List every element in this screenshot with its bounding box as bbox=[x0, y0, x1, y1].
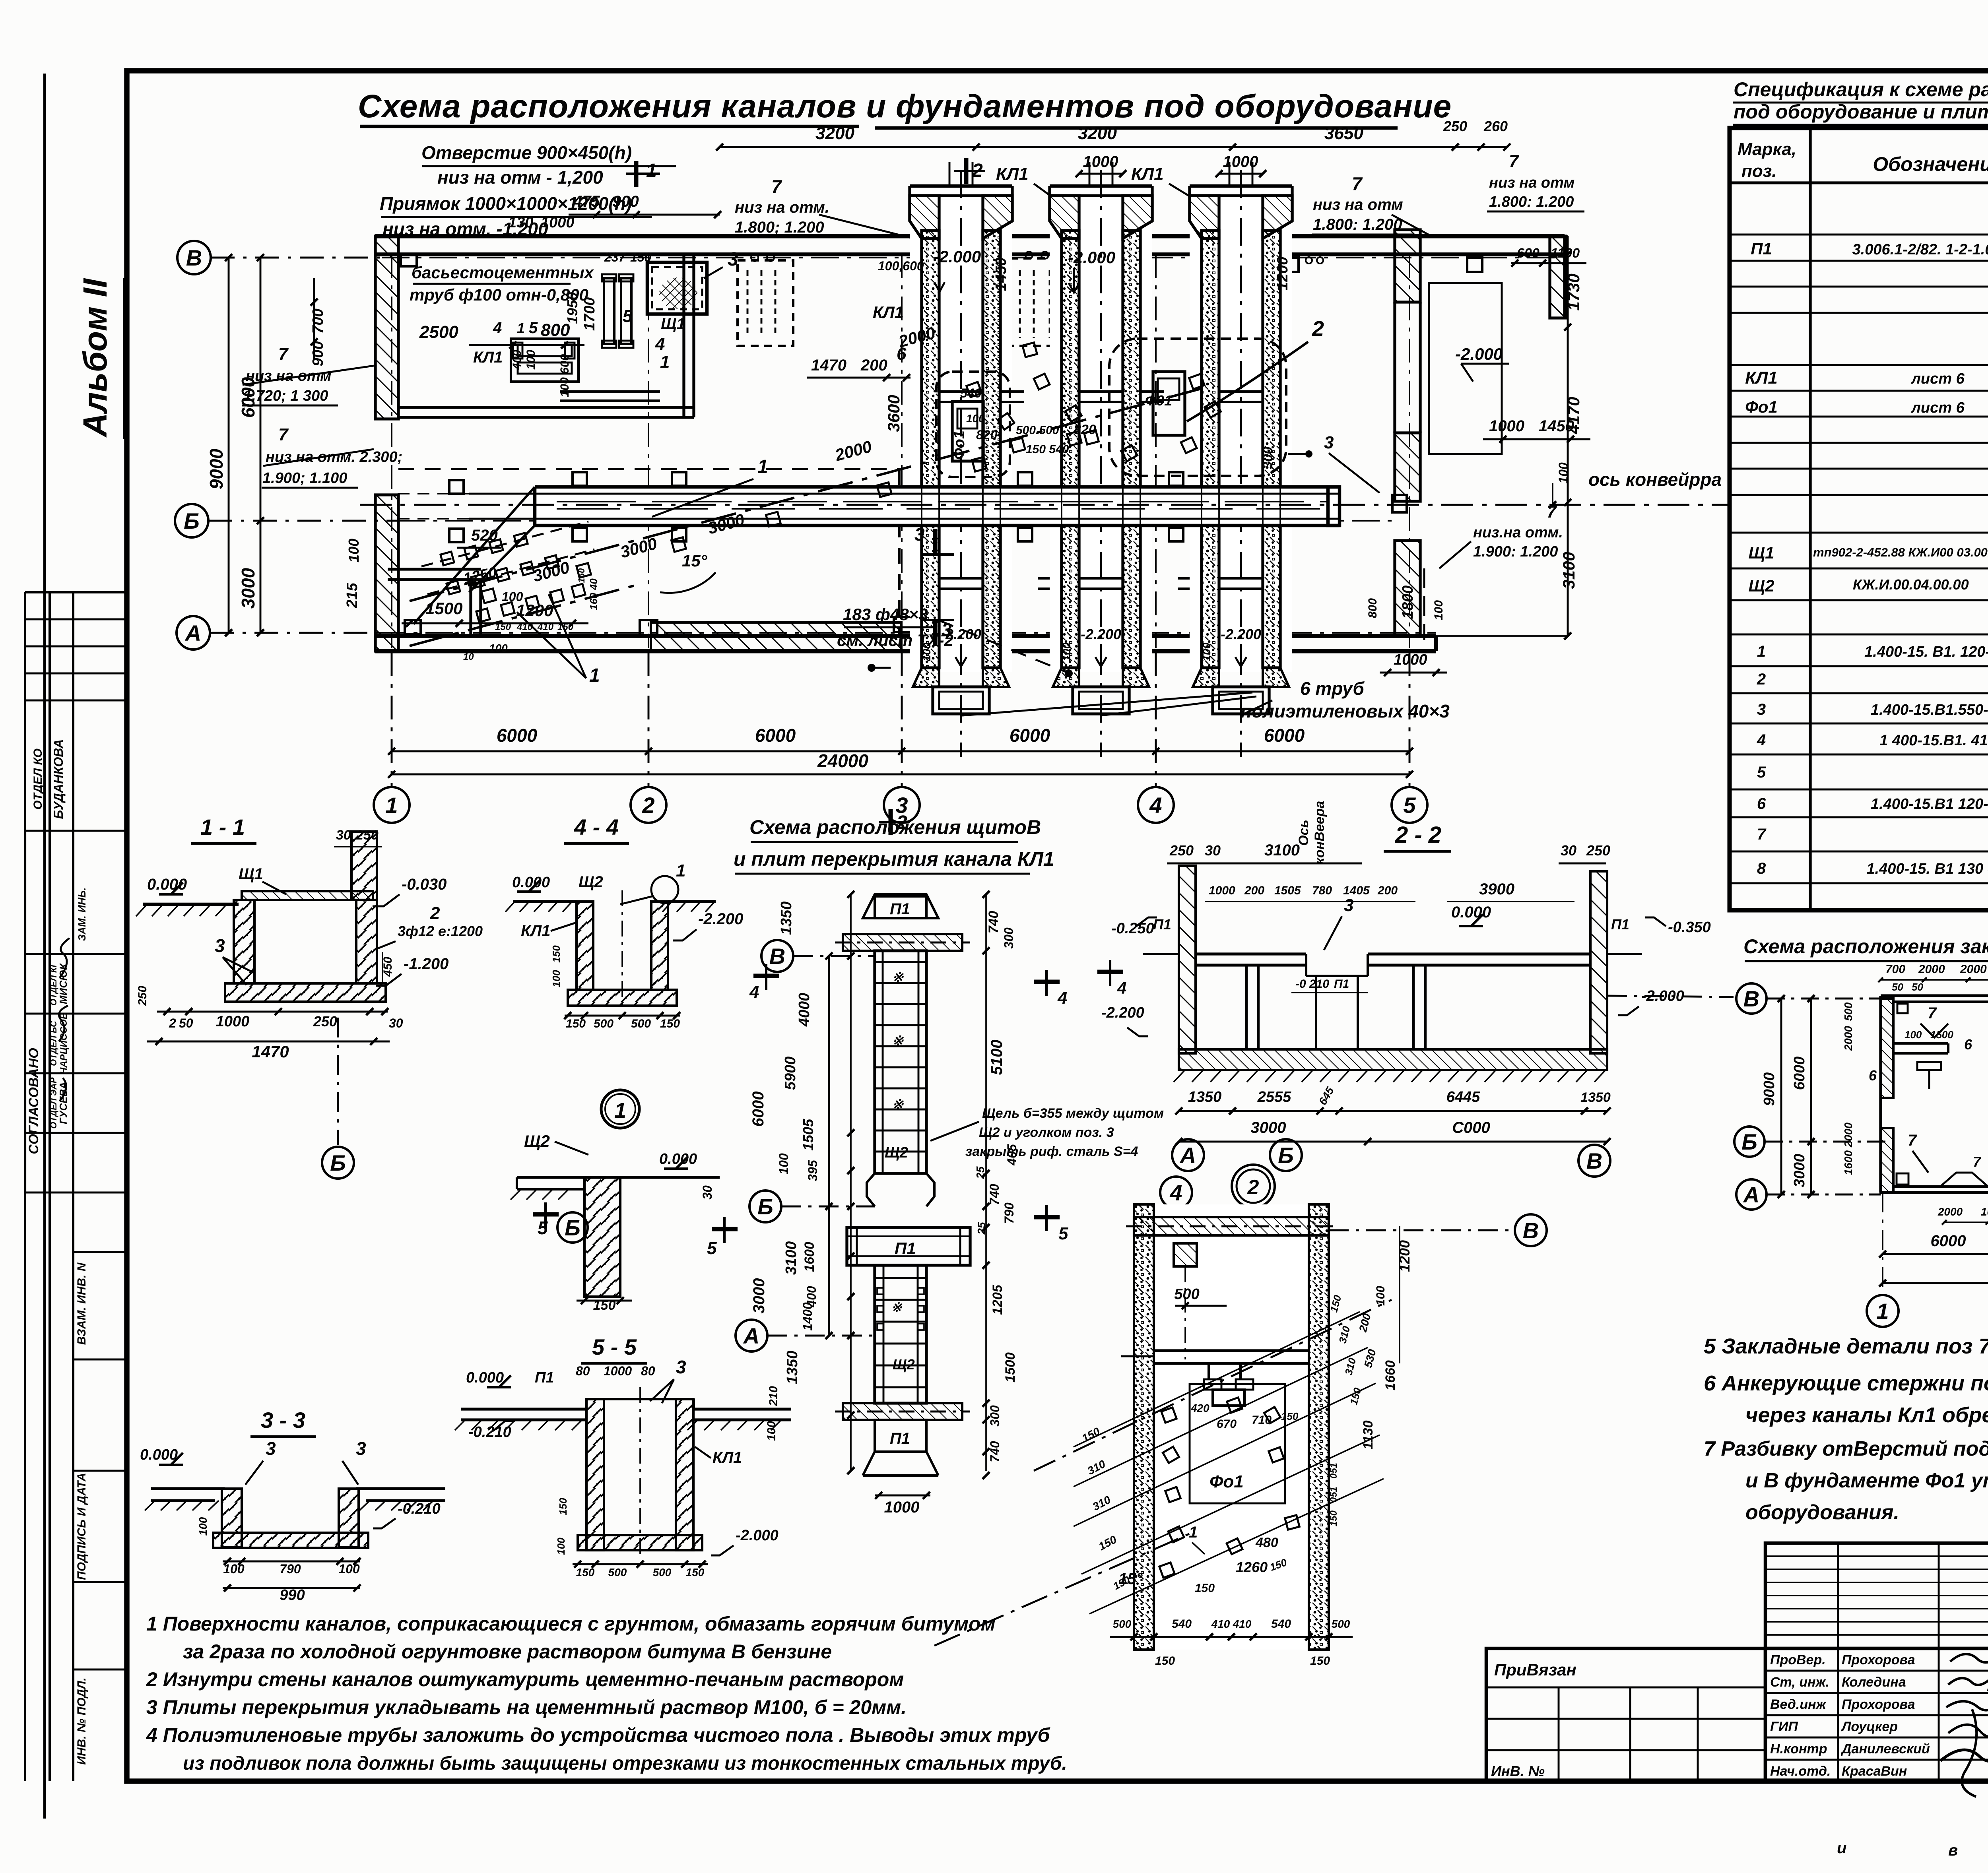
title block signatures scribbles bbox=[1950, 1654, 1988, 1667]
svg-text:низ на отм - 1,200: низ на отм - 1,200 bbox=[437, 167, 603, 188]
svg-text:215: 215 bbox=[344, 582, 361, 608]
svg-text:Б: Б bbox=[1278, 1143, 1294, 1168]
svg-text:В: В bbox=[1586, 1148, 1602, 1173]
svg-text:и: и bbox=[1837, 1839, 1846, 1857]
svg-text:183 ф48×3: 183 ф48×3 bbox=[843, 605, 928, 624]
svg-text:Б: Б bbox=[757, 1194, 773, 1219]
svg-text:250: 250 bbox=[355, 828, 379, 843]
svg-text:500: 500 bbox=[653, 1566, 672, 1578]
conveyor left diagonal legs bbox=[414, 487, 535, 624]
svg-text:КЛ1: КЛ1 bbox=[996, 164, 1029, 184]
machine anchor squares bbox=[967, 382, 982, 397]
bottom axis dim rows bbox=[392, 750, 1409, 752]
svg-text:1000: 1000 bbox=[884, 1499, 920, 1516]
section 4-4 group bbox=[505, 814, 743, 1128]
trench axis circle B right bbox=[1515, 1214, 1547, 1246]
svg-text:100: 100 bbox=[197, 1517, 209, 1536]
building left wall upper hatched bbox=[375, 236, 398, 419]
svg-text:ОТДЕЛ БС: ОТДЕЛ БС bbox=[49, 1020, 58, 1066]
svg-text:25: 25 bbox=[974, 1166, 986, 1179]
pad cluster lower left bbox=[441, 552, 454, 565]
svg-text:6: 6 bbox=[1869, 1067, 1877, 1084]
trench walls bbox=[1134, 1204, 1329, 1650]
svg-text:9000: 9000 bbox=[206, 448, 227, 489]
svg-text:1.800: 1.200: 1.800: 1.200 bbox=[1489, 194, 1574, 210]
main plan group bbox=[175, 118, 1730, 835]
svg-text:1: 1 bbox=[646, 160, 657, 181]
svg-text:051: 051 bbox=[1328, 1463, 1339, 1479]
svg-text:Ф01: Ф01 bbox=[1145, 392, 1172, 409]
svg-text:100: 100 bbox=[524, 350, 538, 370]
upper-left room inner walls bbox=[398, 406, 694, 409]
svg-text:7: 7 bbox=[1928, 1004, 1937, 1022]
embedded left dims bbox=[1780, 999, 1782, 1194]
svg-text:ПОДПИСЬ И ДАТА: ПОДПИСЬ И ДАТА bbox=[75, 1473, 88, 1580]
svg-text:5: 5 bbox=[707, 1239, 717, 1258]
svg-text:0.000: 0.000 bbox=[147, 876, 187, 893]
svg-text:Коледина: Коледина bbox=[1842, 1675, 1906, 1690]
svg-text:ПриВязан: ПриВязан bbox=[1494, 1660, 1576, 1679]
svg-text:500.500: 500.500 bbox=[1016, 424, 1059, 437]
svg-text:Схема расположения закладных д: Схема расположения закладных деталей на … bbox=[1743, 935, 1988, 958]
left vertical dim chain bbox=[228, 258, 230, 633]
svg-text:3: 3 bbox=[676, 1357, 686, 1377]
section 4-4 channel bbox=[577, 902, 593, 990]
svg-text:Обозначение: Обозначение bbox=[1873, 153, 1988, 175]
svg-text:900: 900 bbox=[612, 193, 639, 210]
dashed panel 1 upper bbox=[738, 260, 793, 346]
svg-text:500: 500 bbox=[594, 1017, 613, 1030]
svg-text:Фо1: Фо1 bbox=[1745, 397, 1778, 416]
svg-text:П1: П1 bbox=[1611, 916, 1629, 933]
svg-text:100: 100 bbox=[223, 1562, 245, 1576]
tower scheme group bbox=[707, 816, 1164, 1516]
svg-text:50: 50 bbox=[1912, 981, 1923, 993]
tower middle P1 band bbox=[847, 1227, 970, 1265]
svg-text:С000: С000 bbox=[1452, 1119, 1490, 1136]
svg-text:6: 6 bbox=[1964, 1036, 1972, 1053]
svg-text:8: 8 bbox=[1757, 860, 1766, 877]
mid partition walls bbox=[388, 568, 481, 570]
svg-text:150: 150 bbox=[576, 1566, 595, 1578]
section 1-1 upper right wall bbox=[351, 832, 377, 900]
svg-text:6000: 6000 bbox=[497, 725, 538, 746]
svg-text:790: 790 bbox=[1002, 1202, 1016, 1224]
building left wall lower hatched bbox=[375, 495, 398, 651]
svg-text:2000: 2000 bbox=[1842, 1026, 1854, 1051]
section 1-1 dims bbox=[157, 1011, 388, 1013]
svg-text:В: В bbox=[1743, 986, 1759, 1011]
embedded inner details upper left bbox=[1893, 1042, 1948, 1045]
svg-text:1350: 1350 bbox=[1188, 1089, 1222, 1105]
svg-text:3 - 3: 3 - 3 bbox=[261, 1408, 305, 1433]
svg-text:5900: 5900 bbox=[782, 1057, 799, 1090]
2-2 bottom dims bbox=[1179, 1110, 1607, 1112]
conveyor left extension lines bbox=[469, 493, 535, 495]
svg-text:3650: 3650 bbox=[1324, 124, 1363, 143]
svg-text:7: 7 bbox=[1352, 173, 1363, 194]
svg-text:Лоуцкер: Лоуцкер bbox=[1840, 1719, 1898, 1734]
section 5-5 trench bbox=[586, 1399, 604, 1550]
svg-text:15°: 15° bbox=[682, 551, 708, 570]
svg-text:0.000: 0.000 bbox=[140, 1446, 178, 1463]
svg-text:2500: 2500 bbox=[419, 322, 458, 342]
svg-text:КЛ1: КЛ1 bbox=[521, 922, 550, 940]
svg-text:за 2раза по холодной огрунт: за 2раза по холодной огрунтовке растворо… bbox=[183, 1640, 832, 1663]
svg-text:1600: 1600 bbox=[1842, 1150, 1854, 1175]
2-2 right wall bbox=[1590, 871, 1607, 1053]
svg-text:100: 100 bbox=[489, 642, 508, 654]
svg-text:В: В bbox=[186, 245, 202, 270]
svg-text:КЛ1: КЛ1 bbox=[473, 349, 503, 366]
svg-text:4 - 4: 4 - 4 bbox=[574, 814, 619, 840]
svg-text:670: 670 bbox=[1217, 1417, 1237, 1431]
embedded walls hatched corners bbox=[1881, 999, 1893, 1098]
svg-text:100: 100 bbox=[1905, 1029, 1922, 1041]
tower upper ladder bbox=[875, 951, 926, 1173]
svg-text:Альбом II: Альбом II bbox=[76, 278, 114, 438]
svg-text:150: 150 bbox=[660, 1017, 680, 1030]
svg-text:6000: 6000 bbox=[1791, 1057, 1808, 1090]
svg-text:ось конвейрра: ось конвейрра bbox=[1588, 469, 1722, 490]
svg-text:1260: 1260 bbox=[1236, 1559, 1268, 1575]
channel KL1 #3 bbox=[1190, 186, 1292, 672]
svg-text:780: 780 bbox=[1312, 884, 1332, 897]
svg-text:низ.на отм.: низ.на отм. bbox=[1473, 524, 1563, 541]
svg-text:150: 150 bbox=[550, 945, 562, 963]
left stamp column grid bbox=[24, 592, 26, 1781]
svg-text:1: 1 bbox=[660, 352, 670, 372]
svg-text:4: 4 bbox=[493, 319, 502, 337]
svg-text:4: 4 bbox=[1057, 988, 1067, 1008]
svg-text:ГУСЕВА: ГУСЕВА bbox=[57, 1082, 69, 1124]
svg-text:оборудования.: оборудования. bbox=[1745, 1501, 1899, 1524]
svg-text:1: 1 bbox=[757, 456, 768, 477]
svg-text:2000: 2000 bbox=[1938, 1206, 1963, 1218]
svg-text:ОТДЕЛ КГ: ОТДЕЛ КГ bbox=[49, 962, 58, 1006]
svg-text:800: 800 bbox=[1366, 598, 1379, 618]
section 2-2 group bbox=[1097, 801, 1734, 1177]
svg-text:НАРЦИССОВ: НАРЦИССОВ bbox=[58, 1012, 69, 1074]
svg-text:ПроВер.: ПроВер. bbox=[1770, 1652, 1826, 1667]
svg-text:1000: 1000 bbox=[541, 214, 575, 231]
svg-text:лист 6: лист 6 bbox=[1910, 399, 1965, 416]
svg-text:В: В bbox=[769, 944, 785, 969]
2-2 floor and trench bbox=[1143, 953, 1179, 955]
svg-text:7: 7 bbox=[1509, 151, 1520, 171]
tower section mark 4 right bbox=[1034, 980, 1060, 984]
svg-text:лист 6: лист 6 bbox=[1910, 370, 1965, 387]
svg-text:КрасаВин: КрасаВин bbox=[1842, 1764, 1907, 1779]
svg-text:П1: П1 bbox=[895, 1239, 916, 1258]
svg-text:150 540: 150 540 bbox=[1026, 443, 1069, 456]
svg-text:А: А bbox=[184, 620, 201, 646]
svg-text:1 400-15.В1. 410: 1 400-15.В1. 410 bbox=[1879, 732, 1988, 749]
left axis dash lines bbox=[211, 257, 382, 259]
svg-text:200: 200 bbox=[860, 357, 887, 374]
svg-text:※: ※ bbox=[892, 1097, 904, 1112]
top dim row 3200 3200 3650 bbox=[720, 146, 1507, 148]
svg-text:395: 395 bbox=[806, 1159, 820, 1181]
svg-text:Н.контр: Н.контр bbox=[1770, 1741, 1827, 1757]
svg-text:Марка,: Марка, bbox=[1738, 140, 1796, 159]
svg-text:-0.030: -0.030 bbox=[402, 876, 447, 893]
svg-text:6445: 6445 bbox=[1446, 1089, 1480, 1105]
trench anchor squares bbox=[1161, 1408, 1176, 1423]
svg-text:1.400-15.В1.550-04: 1.400-15.В1.550-04 bbox=[1871, 702, 1988, 718]
channel KL1 #1 bbox=[910, 186, 1012, 672]
svg-text:2: 2 bbox=[1312, 317, 1324, 341]
2-2 section mark 4 bbox=[1097, 970, 1123, 974]
section mark 2 bottom bbox=[889, 809, 893, 835]
tower left dim columns bbox=[828, 956, 830, 1336]
svg-text:5 - 5: 5 - 5 bbox=[592, 1334, 637, 1359]
svg-text:※: ※ bbox=[891, 1300, 903, 1315]
svg-text:-2.200: -2.200 bbox=[1221, 626, 1261, 642]
svg-text:3200: 3200 bbox=[1078, 124, 1117, 143]
section 3-3 group bbox=[140, 1408, 445, 1603]
svg-text:0.000: 0.000 bbox=[1451, 904, 1491, 921]
svg-text:ОТДЕЛ КО: ОТДЕЛ КО bbox=[31, 748, 45, 810]
axis grid dash lines across building bbox=[382, 257, 1565, 258]
svg-text:1400: 1400 bbox=[800, 1302, 815, 1330]
svg-text:740: 740 bbox=[987, 1184, 1002, 1205]
svg-text:А: А bbox=[743, 1323, 759, 1348]
svg-text:КЛ1: КЛ1 bbox=[873, 303, 904, 322]
svg-text:1470: 1470 bbox=[811, 357, 846, 374]
svg-text:в: в bbox=[1948, 1842, 1958, 1859]
svg-text:4: 4 bbox=[1117, 979, 1126, 997]
svg-text:-2.200: -2.200 bbox=[698, 910, 743, 928]
svg-text:1: 1 bbox=[1757, 643, 1766, 660]
svg-text:3.006.1-2/82. 1-2-1.0-024: 3.006.1-2/82. 1-2-1.0-024 bbox=[1852, 241, 1988, 258]
svg-text:4: 4 bbox=[749, 982, 759, 1002]
svg-text:7 Разбивку отВерстий под а: 7 Разбивку отВерстий под анкерующие балт… bbox=[1704, 1437, 1988, 1460]
svg-text:500: 500 bbox=[608, 1566, 627, 1578]
svg-text:100: 100 bbox=[555, 1538, 567, 1555]
svg-text:3: 3 bbox=[1324, 433, 1334, 452]
svg-text:475: 475 bbox=[573, 193, 600, 210]
svg-text:30: 30 bbox=[336, 828, 351, 843]
svg-text:Фо1: Фо1 bbox=[1209, 1472, 1244, 1491]
svg-text:1600: 1600 bbox=[802, 1242, 817, 1272]
svg-text:1000: 1000 bbox=[1209, 884, 1235, 897]
svg-text:Схема расположения щитоВ: Схема расположения щитоВ bbox=[749, 816, 1041, 838]
svg-text:150: 150 bbox=[1281, 1410, 1299, 1422]
svg-text:из подливок пола должны быт: из подливок пола должны быть защищены от… bbox=[183, 1753, 1067, 1774]
tower bottom dim 1000 bbox=[875, 1495, 930, 1497]
svg-text:СОГЛАСОВАНО: СОГЛАСОВАНО bbox=[26, 1048, 41, 1154]
svg-text:3100: 3100 bbox=[1559, 552, 1578, 589]
svg-text:П1: П1 bbox=[890, 900, 910, 918]
svg-text:740: 740 bbox=[986, 911, 1001, 934]
Sch2 detail section mark 5 bbox=[533, 1212, 559, 1217]
svg-text:1.800: 1.200: 1.800: 1.200 bbox=[1313, 216, 1402, 233]
svg-text:4 Полиэтиленовые трубы залож: 4 Полиэтиленовые трубы заложить до устро… bbox=[146, 1724, 1051, 1746]
axis circle B right of Sch2 bbox=[557, 1212, 588, 1243]
axis circle A left bbox=[177, 616, 210, 650]
svg-text:200: 200 bbox=[1244, 884, 1264, 897]
svg-text:1450: 1450 bbox=[993, 258, 1010, 291]
svg-text:5: 5 bbox=[1403, 793, 1416, 818]
svg-text:2: 2 bbox=[1757, 671, 1766, 688]
section mark 3 middle bbox=[933, 529, 938, 555]
svg-text:160 40: 160 40 bbox=[588, 578, 600, 610]
svg-text:1500: 1500 bbox=[425, 599, 462, 618]
svg-text:КЖ.И.00.04.00.00: КЖ.И.00.04.00.00 bbox=[1853, 576, 1969, 593]
svg-text:1000: 1000 bbox=[216, 1013, 250, 1030]
svg-text:1000: 1000 bbox=[604, 1364, 632, 1378]
svg-text:-2.000: -2.000 bbox=[1455, 345, 1503, 363]
spec table grid bbox=[1730, 128, 1988, 910]
room pipe fixture bbox=[511, 339, 579, 382]
svg-text:4170: 4170 bbox=[1564, 397, 1583, 434]
svg-text:2000: 2000 bbox=[1918, 963, 1945, 976]
svg-text:100: 100 bbox=[1200, 642, 1213, 661]
trench top slab bbox=[1134, 1217, 1329, 1235]
svg-text:низ на отм: низ на отм bbox=[1489, 175, 1574, 191]
svg-text:100,600: 100,600 bbox=[878, 259, 924, 273]
svg-text:Нач.отд.: Нач.отд. bbox=[1770, 1764, 1831, 1779]
svg-text:В: В bbox=[1523, 1218, 1539, 1243]
tower lower ladder bbox=[875, 1265, 926, 1403]
tower section mark 4 left bbox=[753, 974, 779, 978]
privyazan table bbox=[1486, 1648, 1765, 1781]
svg-text:Щ1: Щ1 bbox=[661, 315, 685, 333]
svg-text:24000: 24000 bbox=[817, 750, 868, 771]
svg-text:200: 200 bbox=[1377, 884, 1398, 897]
svg-text:1: 1 bbox=[676, 861, 685, 880]
axis circle B left bbox=[177, 241, 211, 274]
svg-text:ВЗАМ. ИНВ. N: ВЗАМ. ИНВ. N bbox=[75, 1262, 88, 1345]
section 4-4 dims bbox=[565, 1015, 680, 1017]
Fo1 machine 1 bbox=[936, 372, 1010, 477]
svg-text:Щ1: Щ1 bbox=[239, 865, 263, 883]
svg-text:Б: Б bbox=[330, 1150, 346, 1175]
conveyor band bbox=[535, 487, 1340, 525]
trench plan axis circles top bbox=[1160, 1177, 1192, 1208]
svg-text:300: 300 bbox=[988, 1405, 1002, 1427]
svg-text:5: 5 bbox=[1757, 764, 1766, 781]
svg-text:Схема расположения каналов и ф: Схема расположения каналов и фундаментов… bbox=[358, 88, 1452, 124]
svg-text:3 Плиты перекрытия укладыват: 3 Плиты перекрытия укладывать на цементн… bbox=[146, 1696, 907, 1718]
section 5-5 group bbox=[455, 1334, 791, 1578]
svg-text:1505: 1505 bbox=[800, 1119, 816, 1151]
svg-text:Щ2 и уголком поз. 3: Щ2 и уголком поз. 3 bbox=[979, 1125, 1114, 1140]
svg-text:2: 2 bbox=[169, 1016, 176, 1030]
svg-text:1 - 1: 1 - 1 bbox=[200, 814, 245, 840]
svg-text:басьестоцементных: басьестоцементных bbox=[412, 263, 594, 282]
room shelf bbox=[560, 390, 660, 393]
svg-text:КЛ1: КЛ1 bbox=[1131, 164, 1164, 184]
svg-text:150: 150 bbox=[1155, 1654, 1175, 1667]
svg-text:7: 7 bbox=[1973, 1154, 1982, 1170]
svg-text:7: 7 bbox=[278, 425, 289, 444]
svg-text:Вед.инж: Вед.инж bbox=[1770, 1697, 1827, 1712]
svg-text:1350: 1350 bbox=[1580, 1090, 1611, 1105]
svg-text:250: 250 bbox=[136, 986, 149, 1006]
svg-text:Щ2: Щ2 bbox=[885, 1144, 908, 1161]
svg-text:1350: 1350 bbox=[778, 902, 795, 935]
svg-text:Фо1: Фо1 bbox=[951, 430, 968, 460]
channel KL1 #2 bbox=[1050, 186, 1152, 672]
svg-text:БУДАНКОВА: БУДАНКОВА bbox=[51, 739, 66, 819]
svg-text:2555: 2555 bbox=[1257, 1089, 1291, 1105]
trench mid slab bbox=[1154, 1349, 1309, 1352]
embedded bumps bottom bbox=[1940, 1173, 1988, 1187]
embedded small squares bottom wall bbox=[1897, 1173, 1908, 1185]
svg-text:6000: 6000 bbox=[1010, 725, 1050, 746]
svg-text:1.720; 1 300: 1.720; 1 300 bbox=[243, 388, 328, 404]
axis circle B under 1-1 bbox=[322, 1147, 354, 1179]
svg-text:250: 250 bbox=[313, 1013, 337, 1030]
svg-text:-2.200: -2.200 bbox=[1081, 626, 1121, 642]
svg-text:5: 5 bbox=[623, 306, 633, 326]
shield Sch1 box bbox=[647, 262, 707, 314]
svg-text:700: 700 bbox=[310, 308, 326, 333]
svg-text:※: ※ bbox=[892, 970, 904, 985]
svg-text:1 Поверхности каналов, соприк: 1 Поверхности каналов, соприкасающиеся с… bbox=[146, 1613, 996, 1635]
svg-text:6000: 6000 bbox=[1264, 725, 1305, 746]
svg-text:П1: П1 bbox=[535, 1369, 554, 1386]
svg-text:2: 2 bbox=[430, 904, 440, 923]
svg-text:2000: 2000 bbox=[1960, 963, 1987, 976]
svg-text:1350: 1350 bbox=[784, 1351, 801, 1384]
svg-text:-0.210: -0.210 bbox=[398, 1501, 441, 1517]
svg-text:1: 1 bbox=[517, 320, 525, 336]
svg-text:7: 7 bbox=[771, 176, 782, 197]
svg-text:МИСЮК: МИСЮК bbox=[57, 963, 69, 1004]
embedded scheme plan outline bbox=[1881, 994, 1988, 997]
svg-text:※: ※ bbox=[892, 1033, 904, 1049]
svg-text:-2.000: -2.000 bbox=[934, 247, 981, 266]
svg-text:3: 3 bbox=[914, 524, 925, 545]
section mark 2 top bbox=[964, 158, 969, 184]
svg-text:6 труб: 6 труб bbox=[1300, 678, 1365, 699]
svg-text:10: 10 bbox=[463, 651, 474, 662]
svg-text:П1: П1 bbox=[890, 1430, 910, 1447]
svg-text:3: 3 bbox=[215, 935, 225, 956]
svg-text:1.800; 1.200: 1.800; 1.200 bbox=[735, 219, 824, 236]
2-2 dash line to B right bbox=[1607, 996, 1734, 997]
svg-text:Щ1: Щ1 bbox=[1749, 543, 1774, 562]
title block mini rows table bbox=[1765, 1543, 1988, 1648]
svg-text:9000: 9000 bbox=[1761, 1072, 1778, 1106]
svg-text:1.900: 1.200: 1.900: 1.200 bbox=[1473, 543, 1558, 560]
svg-text:3: 3 bbox=[266, 1438, 276, 1459]
svg-text:и В фундаменте Фо1 уточнить: и В фундаменте Фо1 уточнить после получе… bbox=[1745, 1469, 1988, 1492]
svg-text:закрыть риф. сталь S=4: закрыть риф. сталь S=4 bbox=[965, 1144, 1138, 1159]
svg-text:30: 30 bbox=[389, 1016, 403, 1030]
svg-text:ЗАМ. ИНЬ.: ЗАМ. ИНЬ. bbox=[76, 888, 88, 941]
svg-text:100: 100 bbox=[1060, 642, 1073, 661]
svg-text:100: 100 bbox=[550, 970, 562, 987]
svg-text:1700: 1700 bbox=[581, 297, 598, 331]
plan axis circles 1-5 bbox=[374, 787, 410, 823]
svg-text:Отверстие 900×450(h): Отверстие 900×450(h) bbox=[421, 142, 632, 163]
svg-text:2 Изнутри стены каналов ошт: 2 Изнутри стены каналов оштукатурить цем… bbox=[146, 1668, 904, 1691]
svg-text:15°: 15° bbox=[1118, 1570, 1143, 1588]
svg-text:Щ2: Щ2 bbox=[579, 873, 603, 891]
svg-text:конВеера: конВеера bbox=[1312, 801, 1327, 865]
top right pier bbox=[1550, 236, 1566, 318]
svg-text:7: 7 bbox=[1757, 826, 1767, 843]
section 3-3 dims bbox=[223, 1561, 360, 1563]
svg-text:5100: 5100 bbox=[988, 1040, 1006, 1075]
svg-text:ИнВ. №: ИнВ. № bbox=[1491, 1763, 1545, 1779]
bottom wall hatched band bbox=[651, 622, 901, 651]
svg-text:3000: 3000 bbox=[238, 568, 258, 609]
